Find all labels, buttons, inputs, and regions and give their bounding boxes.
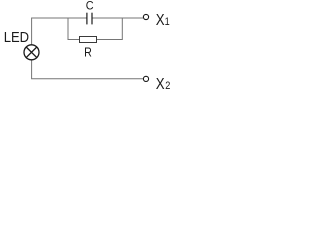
svg-text:LED: LED — [4, 29, 29, 45]
svg-text:R: R — [84, 46, 92, 60]
svg-text:X: X — [156, 76, 165, 93]
svg-text:X: X — [156, 12, 165, 29]
svg-text:2: 2 — [165, 80, 170, 92]
svg-text:C: C — [86, 0, 94, 13]
svg-text:1: 1 — [165, 16, 170, 28]
